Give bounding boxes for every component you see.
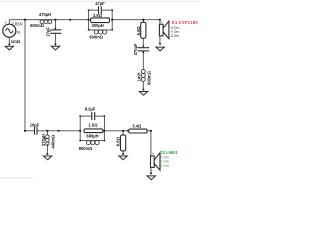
- node dot block1 right: [111, 19, 113, 21]
- svg-text:Z 0m: Z 0m: [171, 34, 180, 38]
- svg-text:47µF: 47µF: [95, 1, 105, 6]
- wire L1 to block1: [52, 19, 89, 21]
- ground (D1): [156, 47, 164, 51]
- node dot C1 ground: [54, 43, 56, 45]
- resistor R6 1.5ohm: [84, 129, 103, 133]
- svg-text:6.8Ω: 6.8Ω: [116, 136, 121, 146]
- ground (R7): [119, 156, 127, 160]
- node dot block2 bottom-left corner: [79, 140, 81, 142]
- svg-text:470µF: 470µF: [133, 43, 138, 55]
- resistor R3 6.8ohm vertical: [141, 22, 146, 38]
- node dot block2 top-right corner: [104, 115, 106, 117]
- frame bottom-left edge: [0, 177, 33, 179]
- svg-text:27µF: 27µF: [46, 27, 51, 37]
- inductor L1 470uH: [37, 20, 52, 24]
- speaker D2: [151, 151, 161, 172]
- node dot C3-L3 joint: [142, 52, 144, 54]
- node dot D1 corner: [159, 19, 161, 21]
- wire C1 tap: [54, 20, 56, 30]
- svg-text:10µF: 10µF: [30, 122, 40, 127]
- wire block1 to D1: [112, 19, 160, 21]
- svg-text:+: +: [4, 20, 7, 25]
- wire bottom to C4: [25, 130, 34, 132]
- svg-text:D1 KSP218K: D1 KSP218K: [172, 20, 199, 25]
- wire source to ground: [8, 37, 10, 44]
- resistor R7 6.8ohm vertical: [121, 135, 126, 151]
- ground (D2): [147, 176, 155, 180]
- wire block2 left rail: [79, 116, 81, 141]
- wire L4 tap down: [46, 131, 48, 133]
- node dot R4 left: [127, 130, 129, 132]
- wire L3 to ground: [142, 81, 144, 89]
- svg-text:6.8Ω: 6.8Ω: [136, 26, 141, 36]
- wire R7 to ground: [122, 151, 124, 154]
- wire into D1: [159, 20, 161, 25]
- svg-text:3.9Ω: 3.9Ω: [93, 13, 103, 18]
- wire block2 right rail: [103, 116, 105, 141]
- wire block1 top rail: [89, 9, 98, 11]
- wire source stem: [8, 20, 10, 25]
- wire D1 to ground: [159, 36, 161, 44]
- wire C4 to block2: [38, 130, 81, 132]
- wire block2 to D2 corner: [104, 130, 150, 132]
- node dot block1 left: [88, 19, 90, 21]
- node dot bottom corner: [24, 130, 26, 132]
- node dot L4 ground: [46, 153, 48, 155]
- wire block1 right rail: [111, 10, 113, 30]
- svg-text:1.5Ω: 1.5Ω: [89, 123, 99, 128]
- node dot block1 top-right corner: [111, 9, 113, 11]
- node dot block2 bottom-right corner: [104, 140, 106, 142]
- ground (source): [5, 46, 13, 50]
- node dot D1 ground: [159, 43, 161, 45]
- capacitor C4 10uF: [35, 127, 38, 135]
- svg-text:440mΩ: 440mΩ: [51, 134, 56, 148]
- node dot L3 ground: [142, 89, 144, 91]
- wire block2 top rail: [80, 115, 91, 117]
- inductor L4 270uH vertical: [46, 133, 50, 146]
- svg-text:1mΩ: 1mΩ: [11, 39, 21, 44]
- svg-text:2.83V: 2.83V: [11, 21, 23, 26]
- frame top edge: [0, 0, 200, 2]
- ground (L4): [43, 156, 51, 160]
- svg-text:3.4Ω: 3.4Ω: [132, 123, 142, 128]
- svg-text:0s: 0s: [17, 31, 21, 35]
- wire down to D2: [150, 131, 152, 156]
- node dot block1 bottom-right corner: [111, 29, 113, 31]
- svg-text:600mΩ: 600mΩ: [146, 70, 151, 84]
- svg-text:600mΩ: 600mΩ: [89, 34, 103, 39]
- node dot source ground: [8, 43, 10, 45]
- ground (C1): [51, 46, 59, 50]
- node dot block2 top-left corner: [79, 115, 81, 117]
- speaker D1: [159, 20, 169, 41]
- svg-text:Z 0m: Z 0m: [160, 163, 169, 168]
- wire block1 left rail: [88, 10, 90, 30]
- inductor L3 1mH vertical: [141, 69, 145, 81]
- node dot block1 bottom-left corner: [88, 29, 90, 31]
- svg-text:600mΩ: 600mΩ: [30, 23, 44, 28]
- svg-text:800mΩ: 800mΩ: [79, 146, 93, 151]
- capacitor C3 470uF: [138, 48, 149, 51]
- inductor L5 680uH: [86, 141, 99, 145]
- wire bus vertical: [24, 20, 26, 131]
- node dot D2 ground: [150, 172, 152, 174]
- wire block1 bottom rail: [89, 29, 113, 31]
- node dot source-bus junction: [24, 19, 26, 21]
- voltage source V1: [3, 20, 16, 37]
- node dot C1 top joint: [55, 28, 57, 30]
- node dot block2 left: [79, 130, 81, 132]
- node dot D2 corner: [150, 130, 152, 132]
- resistor R4 3.4ohm: [129, 129, 147, 133]
- node dot wire joint bottom: [58, 130, 60, 132]
- node dot wire joint: [69, 19, 71, 21]
- svg-text:270µH: 270µH: [41, 134, 46, 146]
- node dot R7 ground: [122, 153, 124, 155]
- inductor L2 300uH: [94, 30, 106, 34]
- node dot block2 right: [103, 130, 105, 132]
- wire D2 to ground: [150, 167, 152, 173]
- wire R7 tap: [122, 131, 124, 135]
- capacitor C5 8.2uF: [92, 112, 95, 120]
- node dot L4 tap: [46, 130, 48, 132]
- node dot shunt1 tap: [142, 19, 144, 21]
- svg-text:1mH: 1mH: [136, 72, 141, 81]
- wire R3 to C3: [142, 38, 144, 46]
- wire source top to bus: [9, 19, 25, 21]
- wire top to L1: [25, 19, 37, 21]
- wire C3 to L3: [142, 51, 144, 70]
- svg-text:680µH: 680µH: [86, 134, 98, 139]
- capacitor C2 47uF: [99, 6, 102, 14]
- ground (L3): [139, 92, 147, 96]
- wire C1 to ground: [54, 33, 56, 44]
- wire shunt1 tap: [142, 20, 144, 23]
- svg-text:470µH: 470µH: [39, 12, 51, 17]
- wire L4 to ground: [46, 144, 48, 154]
- svg-text:8.2µF: 8.2µF: [85, 107, 96, 112]
- capacitor C1 27uF: [50, 30, 61, 33]
- node dot R3-C3 joint: [142, 45, 144, 47]
- svg-text:300µH: 300µH: [92, 23, 104, 28]
- node dot C1 tap: [54, 19, 56, 21]
- node dot R7 tap: [122, 130, 124, 132]
- resistor R2 3.9ohm: [91, 18, 110, 23]
- wire block2 bottom rail: [80, 140, 104, 142]
- node dot block1 top-left corner: [88, 9, 90, 11]
